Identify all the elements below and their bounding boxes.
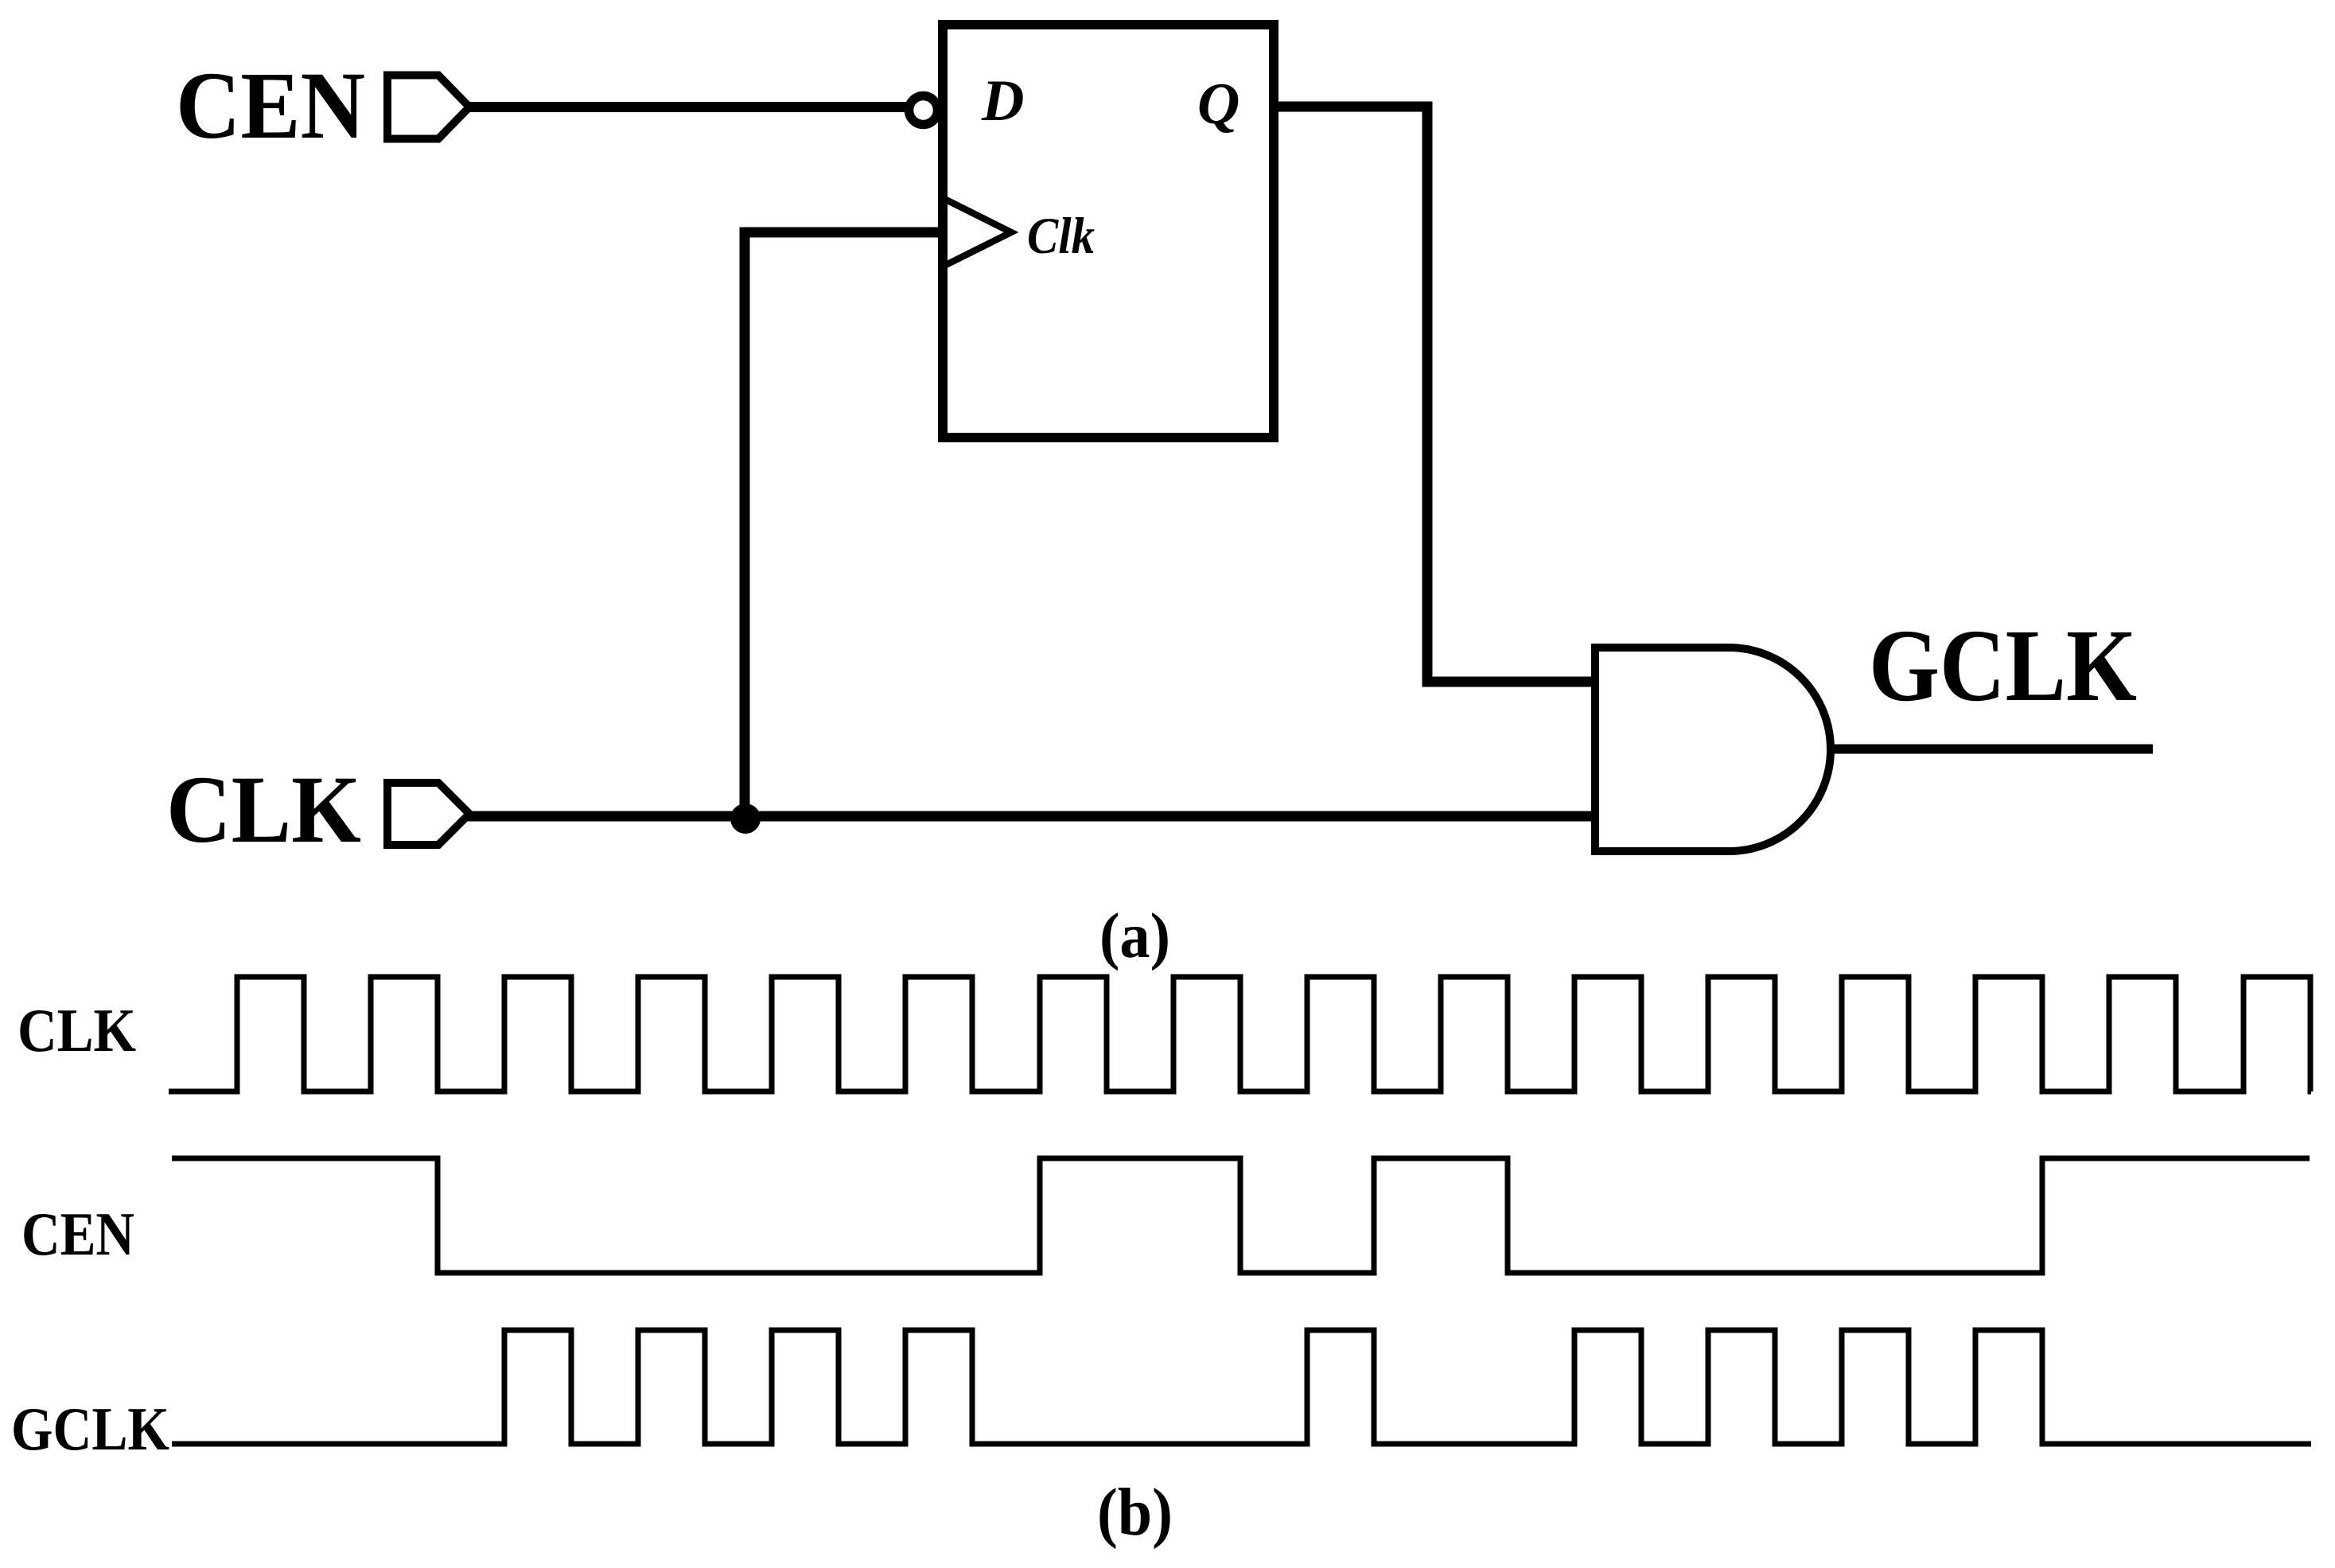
svg-text:Clk: Clk: [1027, 208, 1095, 265]
wire CLK branch to Clk pin: [745, 232, 943, 816]
svg-text:GCLK: GCLK: [11, 1395, 169, 1463]
clock edge triangle on U1: [946, 200, 1011, 265]
junction dot on CLK net: [730, 803, 761, 834]
waveform GCLK trace: [172, 1330, 2311, 1444]
svg-text:CLK: CLK: [166, 757, 361, 863]
svg-text:CEN: CEN: [176, 53, 365, 159]
svg-text:CLK: CLK: [18, 996, 136, 1064]
AND gate U2: [1595, 648, 1831, 851]
svg-text:CEN: CEN: [21, 1200, 134, 1268]
waveform CLK trace: [169, 977, 2311, 1091]
svg-text:D: D: [981, 68, 1024, 134]
port CLK (input port symbol): [387, 783, 469, 845]
inversion bubble at D input: [909, 96, 938, 125]
wire Q to AND gate top input: [1274, 107, 1595, 682]
D flip-flop U1 body: [943, 25, 1274, 438]
svg-text:(a): (a): [1099, 901, 1170, 971]
waveform CEN trace: [172, 1158, 2310, 1273]
svg-text:(b): (b): [1097, 1475, 1173, 1550]
wire CLK to AND gate: [468, 811, 1595, 822]
wire CEN to D bubble: [468, 102, 907, 112]
wire GCLK output: [1831, 745, 2153, 754]
svg-text:GCLK: GCLK: [1869, 609, 2137, 723]
svg-text:Q: Q: [1197, 72, 1239, 137]
port CEN (input port symbol): [387, 76, 469, 139]
